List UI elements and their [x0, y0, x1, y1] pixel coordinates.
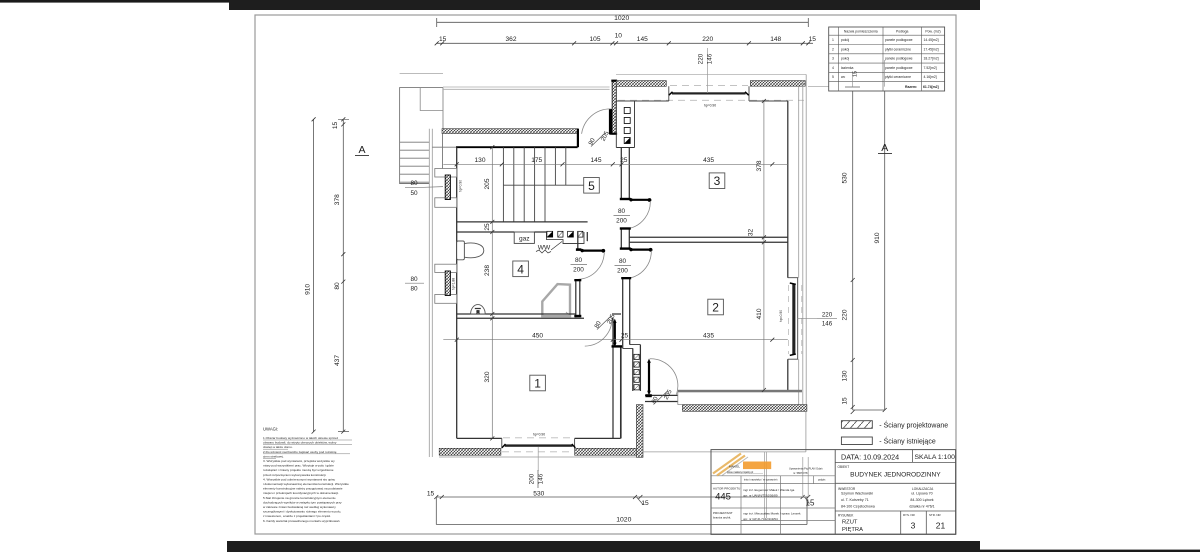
- svg-text:nr. 58672/78: nr. 58672/78: [793, 471, 808, 475]
- svg-text:220: 220: [702, 36, 713, 43]
- interior vertical dim line left: [491, 147, 493, 438]
- svg-text:3. Wszystkie pod wymiarami, pr: 3. Wszystkie pod wymiarami, przejścia ws…: [263, 459, 335, 463]
- door D3 (to room3) width arrow: [631, 199, 650, 201]
- svg-text:szczegółowymi i dyskutowaniu r: szczegółowymi i dyskutowaniu różnego ele…: [263, 510, 341, 514]
- right total dim line 910: [884, 87, 886, 410]
- corridor east wall cap below D4: [621, 277, 631, 279]
- svg-text:STR. NR: STR. NR: [929, 513, 941, 517]
- vestibule wall top cap: [611, 80, 617, 82]
- interior dim line lower: [443, 339, 788, 341]
- right half row lines: [835, 462, 955, 511]
- svg-text:320: 320: [484, 371, 491, 382]
- svg-text:RYSUNEK: RYSUNEK: [838, 514, 854, 518]
- terrace hatch strip: [682, 405, 807, 412]
- east wall mid line: [798, 86, 800, 411]
- svg-text:437: 437: [334, 355, 341, 366]
- bottom dim ticks: [434, 495, 810, 499]
- south window jambs: [502, 438, 575, 448]
- table row lines: [829, 35, 945, 81]
- title block main divider: [834, 450, 836, 535]
- svg-text:1020: 1020: [616, 517, 631, 524]
- interior vertical ticks: [490, 145, 494, 440]
- vent square 4: [578, 231, 583, 237]
- svg-text:32: 32: [748, 229, 755, 237]
- terrace outline: [643, 411, 806, 452]
- entry door hinge dot: [609, 131, 613, 135]
- svg-text:4. Wszystkie pod odmierzonymi: 4. Wszystkie pod odmierzonymi wymiarami …: [263, 477, 335, 481]
- toilet tank: [457, 241, 465, 260]
- svg-text:hp=0.90: hp=0.90: [459, 180, 463, 192]
- svg-text:- Ściany istniejące: - Ściany istniejące: [879, 437, 936, 446]
- shower: [542, 284, 570, 316]
- svg-text:ul. T. Kutrzeby 71: ul. T. Kutrzeby 71: [841, 498, 869, 502]
- svg-text:dostep a takze domu.: dostep a takze domu.: [263, 445, 293, 449]
- north window leader: [707, 48, 709, 93]
- left segment dim line: [342, 119, 344, 431]
- svg-text:200: 200: [573, 267, 584, 274]
- south wall room1 inner face: [457, 347, 621, 439]
- wall room5/room4 top edge: [457, 221, 588, 223]
- wall room4/room1 double: [457, 314, 584, 318]
- svg-text:branża archit.: branża archit.: [713, 516, 731, 520]
- svg-text:200: 200: [617, 268, 628, 275]
- top thin black strip: [0, 0, 229, 3]
- svg-text:łazienka: łazienka: [841, 66, 854, 70]
- svg-text:wc: wc: [841, 75, 845, 79]
- rysnr dividers: [901, 511, 927, 534]
- svg-text:RZUT: RZUT: [842, 520, 858, 526]
- right segment dim line: [852, 87, 854, 410]
- header mini labels: [744, 479, 826, 482]
- top wall room5 hatched band: [442, 129, 578, 134]
- corridor south wall double: [645, 395, 678, 401]
- notes underline marks: [263, 440, 352, 458]
- svg-text:450: 450: [532, 333, 543, 340]
- north window sash: [672, 92, 746, 94]
- svg-text:10: 10: [615, 33, 623, 40]
- room number 5: [584, 178, 600, 194]
- svg-text:miary pod wszystkiemi prac. Wi: miary pod wszystkiemi prac. Wizytuje w p…: [263, 464, 334, 468]
- svg-text:80: 80: [410, 276, 418, 283]
- interior dim ticks lower: [455, 338, 775, 342]
- wall room3/room2 double: [629, 237, 788, 242]
- svg-text:1: 1: [832, 38, 834, 42]
- gaz box: [514, 232, 534, 243]
- svg-text:panele podłogowe: panele podłogowe: [885, 57, 913, 61]
- interior vertical dim line right: [763, 101, 765, 390]
- top total dim line 1020: [437, 18, 809, 27]
- door D1 swing arc: [579, 252, 605, 279]
- stair treads lower flight: [503, 185, 545, 222]
- room number 1: [530, 375, 546, 391]
- svg-text:A: A: [881, 142, 888, 154]
- svg-text:2: 2: [832, 47, 834, 51]
- svg-text:146: 146: [822, 321, 833, 328]
- svg-text:w zakresie zmian budowlanej ra: w zakresie zmian budowlanej raz według w…: [263, 505, 336, 509]
- entry door swing arc: [582, 109, 611, 134]
- door D5 label 80/205 rotated: [650, 384, 674, 409]
- entry door label 90/205 rotated: [587, 125, 611, 150]
- svg-text:www.makiel-projekty.pl: www.makiel-projekty.pl: [727, 470, 754, 474]
- wall piece right of door D2: [612, 314, 621, 318]
- table header text: [844, 29, 941, 33]
- svg-text:upr. nr GP-III-7342/119/94: upr. nr GP-III-7342/119/94: [743, 517, 778, 521]
- door D5 jamb cap: [645, 394, 651, 397]
- east window sash: [792, 284, 795, 355]
- wall notch under vent squares: [547, 232, 585, 244]
- interior dim line upper: [443, 163, 788, 165]
- notes body text: [263, 436, 349, 523]
- hall west wall lower caps: [574, 279, 581, 281]
- east wall inner face room3: [787, 101, 789, 278]
- vent square 1 (filled): [547, 231, 553, 237]
- svg-text:Razem:: Razem:: [905, 85, 917, 89]
- svg-text:25: 25: [484, 223, 491, 231]
- logo orange bar: [743, 462, 771, 470]
- svg-text:hp=0.90: hp=0.90: [533, 433, 545, 437]
- stair mid landing line: [503, 184, 587, 186]
- vent square 2: [558, 231, 563, 237]
- svg-text:5.Stal zbrojenie na gruncie ko: 5.Stal zbrojenie na gruncie konstrukcyjn…: [263, 496, 336, 500]
- svg-text:80: 80: [410, 286, 418, 293]
- south window sash: [505, 444, 573, 446]
- logo diagonals: [713, 454, 745, 476]
- door D5 swing arc: [650, 359, 678, 395]
- svg-text:3: 3: [911, 521, 916, 531]
- vent diamonds: [634, 354, 639, 390]
- svg-text:obszaru budowli, do wizyty obe: obszaru budowli, do wizyty obecnych obie…: [263, 441, 337, 445]
- svg-text:ul. Lipowa 70: ul. Lipowa 70: [911, 492, 932, 496]
- svg-text:146: 146: [707, 53, 714, 64]
- svg-text:OBIEKT: OBIEKT: [838, 465, 850, 469]
- svg-text:elementy konstrukcyjne należy: elementy konstrukcyjne należy przygotowa…: [263, 487, 343, 491]
- svg-text:6. Każdy warsztat prowadzonego: 6. Każdy warsztat prowadzonego montażu w…: [263, 519, 340, 523]
- svg-text:i dokumentacji wykonawczej ele: i dokumentacji wykonawczej elementów kon…: [263, 482, 349, 486]
- hall east wall segment 1: [621, 148, 629, 199]
- west window 2 pilaster blocks: [435, 264, 457, 272]
- svg-text:pokój: pokój: [841, 38, 849, 42]
- bottom right thin black strip: [980, 550, 1200, 552]
- svg-text:530: 530: [533, 490, 544, 497]
- door D3 swing arc: [630, 201, 651, 228]
- top dim labels: [439, 33, 816, 43]
- svg-text:3: 3: [714, 174, 721, 188]
- svg-text:362: 362: [505, 36, 516, 43]
- svg-text:15: 15: [842, 397, 849, 405]
- west wall inner face: [456, 147, 458, 438]
- svg-text:Szymon Wachowski: Szymon Wachowski: [841, 492, 873, 496]
- svg-text:5: 5: [832, 75, 834, 79]
- svg-text:rozwiązań i zmiany projektu mu: rozwiązań i zmiany projektu muszą być uz…: [263, 468, 334, 472]
- room number 4: [513, 261, 529, 277]
- west wall pillar top edge: [432, 146, 456, 148]
- east wall outer double: [803, 74, 806, 411]
- svg-text:z inwestorem, a także z projek: z inwestorem, a także z projektantami f …: [263, 514, 331, 518]
- bottom window dim 200/146 rotated: [528, 473, 544, 484]
- room1 east wall: [613, 318, 621, 438]
- north wall hatch right of window: [750, 81, 805, 87]
- roof overhang line: [616, 73, 806, 75]
- hall west wall upper: [578, 232, 588, 249]
- corridor east wall lower: [633, 345, 641, 391]
- table extension line over row5: [853, 60, 885, 87]
- svg-text:5: 5: [588, 179, 595, 193]
- south wall hatch right: [575, 448, 639, 455]
- south window dashes: [502, 438, 574, 452]
- svg-text:80: 80: [334, 282, 341, 290]
- svg-text:2.Do wznieść nad bardzo zapisa: 2.Do wznieść nad bardzo zapisać osoby po…: [263, 450, 337, 454]
- toilet bowl: [464, 243, 483, 258]
- svg-text:A: A: [358, 144, 365, 156]
- svg-text:7.52[m2]: 7.52[m2]: [924, 66, 937, 70]
- shaft squares: [624, 108, 630, 114]
- south window leader: [537, 447, 539, 471]
- svg-text:1: 1: [534, 377, 541, 391]
- svg-text:80: 80: [619, 258, 627, 265]
- svg-text:AUTOR PROJEKTU: AUTOR PROJEKTU: [713, 487, 740, 491]
- canopy edge double line: [443, 87, 610, 89]
- tiny gray company text: [789, 467, 823, 475]
- svg-text:3: 3: [832, 57, 834, 61]
- top segment dim line: [437, 42, 813, 44]
- svg-text:200: 200: [616, 218, 627, 225]
- svg-text:15: 15: [332, 122, 339, 130]
- svg-text:200: 200: [528, 473, 535, 484]
- door D4 label 80/200: [617, 258, 628, 275]
- room number 2: [708, 299, 724, 315]
- svg-text:410: 410: [756, 308, 763, 319]
- svg-text:Pow. (m2): Pow. (m2): [925, 29, 940, 33]
- legend hatched box: [841, 421, 872, 429]
- svg-text:panele podłogowe: panele podłogowe: [885, 38, 913, 42]
- west window 2 sash (dark): [445, 271, 450, 296]
- svg-text:działka nr 476/1: działka nr 476/1: [909, 504, 934, 508]
- svg-text:mgr inż. Mieczysław Marek / sp: mgr inż. Mieczysław Marek / spraw. Lesze…: [743, 512, 801, 516]
- svg-text:130: 130: [474, 157, 485, 164]
- svg-text:80: 80: [618, 208, 626, 215]
- south wall outer face: [439, 456, 643, 458]
- svg-text:mgr inż. Eugeniusz Malek / Wan: mgr inż. Eugeniusz Malek / Wanda Iga: [743, 488, 795, 492]
- svg-text:ciem strefowej.: ciem strefowej.: [263, 454, 284, 458]
- svg-text:4: 4: [832, 66, 834, 70]
- svg-text:- Ściany projektowane: - Ściany projektowane: [879, 420, 948, 429]
- door D1 width arrow: [581, 250, 603, 252]
- bottom total dim line 1020: [436, 497, 807, 525]
- west wall upper outer face: [442, 88, 444, 129]
- svg-text:61.74[m2]: 61.74[m2]: [923, 85, 939, 89]
- svg-text:378: 378: [756, 160, 763, 171]
- south wall hatch left: [439, 448, 501, 455]
- svg-text:podpis: podpis: [818, 479, 826, 482]
- svg-text:18.27[m2]: 18.27[m2]: [924, 57, 939, 61]
- svg-text:płytki ceramiczne: płytki ceramiczne: [885, 75, 911, 79]
- washbasin: [471, 305, 486, 314]
- svg-text:220: 220: [842, 309, 849, 320]
- svg-text:miejscu i przekrojach koordyna: miejscu i przekrojach koordynacyjnych w …: [263, 491, 339, 495]
- svg-text:146: 146: [538, 473, 545, 484]
- svg-text:przed rozpoczęciem wykonywania: przed rozpoczęciem wykonywania konstrukc…: [263, 473, 326, 477]
- entry door leaf: [609, 109, 612, 132]
- svg-text:4: 4: [517, 262, 524, 276]
- svg-text:Nazwa pomieszczenia: Nazwa pomieszczenia: [844, 29, 878, 33]
- svg-text:Uprawnienia Pty PLAN Gdań: Uprawnienia Pty PLAN Gdań: [789, 467, 823, 471]
- svg-text:220: 220: [822, 312, 833, 319]
- svg-text:LOKALIZACJA: LOKALIZACJA: [912, 487, 934, 491]
- east window recess: [788, 278, 798, 360]
- svg-text:435: 435: [703, 157, 714, 164]
- room2 south wall lower edge: [678, 392, 683, 404]
- bottom black bar: [227, 541, 980, 552]
- interior vertical ticks right: [762, 99, 766, 392]
- legend empty box: [841, 437, 872, 445]
- door D1 jamb cap: [576, 248, 582, 251]
- svg-text:panele podłogowe: panele podłogowe: [885, 66, 913, 70]
- svg-text:105: 105: [589, 36, 600, 43]
- left half grid: [711, 476, 835, 521]
- svg-text:15: 15: [427, 490, 435, 497]
- svg-text:84-100 Częstochowa: 84-100 Częstochowa: [841, 504, 875, 508]
- svg-text:hp=0.90: hp=0.90: [779, 310, 783, 322]
- svg-text:14.45[m2]: 14.45[m2]: [924, 38, 939, 42]
- svg-text:84-300 Lębork: 84-300 Lębork: [910, 498, 933, 502]
- north wall hatch left of window: [616, 81, 666, 87]
- svg-text:238: 238: [484, 265, 491, 276]
- hall west wall lower (room4 east): [576, 279, 580, 317]
- corridor step: [623, 345, 641, 349]
- svg-text:gaz: gaz: [519, 236, 530, 243]
- door D3 label 80/200: [616, 208, 627, 225]
- interior dim ticks upper: [455, 162, 775, 166]
- investor lines: [841, 492, 875, 509]
- hall east wall cap: [620, 198, 631, 200]
- porch landing inner lines: [420, 88, 443, 111]
- svg-text:INWESTOR: INWESTOR: [838, 487, 856, 491]
- svg-text:21: 21: [936, 521, 946, 531]
- top dim ticks: [435, 41, 811, 45]
- svg-text:25: 25: [620, 157, 628, 164]
- north inner face right: [749, 86, 788, 101]
- svg-text:1.Obszar budowy wyznaczono w t: 1.Obszar budowy wyznaczono w takich okre…: [263, 436, 338, 440]
- svg-text:435: 435: [703, 333, 714, 340]
- svg-text:50: 50: [410, 190, 418, 197]
- svg-text:imię i nazwisko / nr uprawnień: imię i nazwisko / nr uprawnień: [744, 479, 778, 482]
- porch roof line: [400, 73, 443, 75]
- svg-text:205: 205: [484, 178, 491, 189]
- location lines: [909, 492, 934, 509]
- door D2 swing arc: [585, 319, 612, 346]
- top wall room5 right cap: [577, 129, 579, 148]
- svg-text:4.16[m2]: 4.16[m2]: [924, 75, 937, 79]
- svg-text:2: 2: [712, 301, 719, 315]
- svg-text:DATA: 10.09.2024: DATA: 10.09.2024: [841, 452, 899, 461]
- sheet frame: [255, 15, 956, 534]
- extension lines to title block: [765, 452, 767, 518]
- svg-text:SKALA 1:100: SKALA 1:100: [915, 454, 956, 461]
- svg-text:220: 220: [697, 53, 704, 64]
- vestibule west wall hatched: [612, 80, 616, 133]
- bottom segment dim line: [436, 496, 808, 498]
- svg-text:upr. nr UAN/N/7210/56/89: upr. nr UAN/N/7210/56/89: [743, 494, 778, 498]
- west wall outer face (double line): [429, 129, 432, 457]
- svg-text:1020: 1020: [614, 15, 629, 22]
- west window 1 dim 80/50: [410, 180, 418, 197]
- west window 2 dim 80/80: [410, 276, 418, 293]
- title block frame: [711, 450, 956, 535]
- east window dashes: [789, 285, 802, 354]
- svg-text:hp=1.88: hp=1.88: [452, 278, 456, 290]
- svg-text:dochodzących wyników w związku: dochodzących wyników w związku tym powią…: [263, 500, 342, 504]
- right extension line top: [808, 86, 886, 88]
- svg-text:PIĘTRA: PIĘTRA: [842, 527, 863, 533]
- svg-text:pokój: pokój: [841, 47, 849, 51]
- hall east wall caps segment 2: [620, 227, 631, 229]
- room table frame: [829, 27, 945, 91]
- door D5 width arrow: [648, 361, 650, 394]
- svg-text:Podłoga: Podłoga: [896, 29, 909, 33]
- svg-text:15: 15: [439, 36, 447, 43]
- svg-text:80: 80: [410, 180, 418, 187]
- door D4 swing arc: [631, 251, 652, 278]
- svg-text:hp=0.90: hp=0.90: [704, 104, 716, 108]
- svg-text:17.45[m2]: 17.45[m2]: [924, 47, 939, 51]
- svg-text:15: 15: [809, 36, 817, 43]
- porch stair treads: [400, 142, 430, 182]
- west window 1 sash (dark): [445, 175, 450, 200]
- svg-text:148: 148: [770, 36, 781, 43]
- svg-text:378: 378: [334, 194, 341, 205]
- svg-text:pokój: pokój: [841, 57, 849, 61]
- table rows text: [832, 38, 939, 89]
- wall room5/room4 bottom edge: [457, 231, 547, 233]
- svg-text:BUDYNEK JEDNORODZINNY: BUDYNEK JEDNORODZINNY: [850, 471, 941, 478]
- top wall room5 body: [456, 146, 578, 148]
- data/skala divider: [911, 450, 913, 463]
- svg-text:PROJEKTANT: PROJEKTANT: [713, 511, 733, 515]
- svg-text:RYS. NR: RYS. NR: [903, 513, 915, 517]
- svg-text:910: 910: [305, 284, 312, 295]
- room number 3: [709, 173, 725, 189]
- top window dim 220/146 rotated: [697, 53, 713, 64]
- top black bar: [229, 0, 980, 10]
- svg-text:145: 145: [590, 157, 601, 164]
- stair treads upper flight: [503, 147, 565, 185]
- table column lines: [839, 27, 922, 91]
- shower inner corner mark: [566, 312, 569, 315]
- room1 east wall cap at door: [612, 345, 623, 347]
- svg-text:25: 25: [621, 333, 629, 340]
- svg-text:910: 910: [874, 232, 881, 243]
- svg-text:530: 530: [842, 172, 849, 183]
- room2 south wall band: [678, 390, 802, 393]
- door D1 label 80/200: [573, 257, 584, 274]
- svg-text:UWAGI:: UWAGI:: [263, 427, 278, 432]
- corridor east wall below D4: [623, 278, 630, 349]
- south-east vertical hatch band: [636, 405, 643, 458]
- vent square 3 (filled): [568, 231, 574, 237]
- north inner face left: [616, 86, 669, 101]
- north window dashes: [670, 85, 748, 87]
- svg-text:130: 130: [842, 370, 849, 381]
- west window 1 pilaster blocks: [435, 169, 457, 178]
- svg-text:płytki ceramiczne: płytki ceramiczne: [885, 47, 911, 51]
- porch outline (exterior stair, west): [400, 88, 443, 184]
- west wall band left boundary: [442, 134, 444, 169]
- svg-text:15: 15: [853, 71, 859, 77]
- hall east wall segment 2: [621, 228, 629, 248]
- north inner face dashed line: [618, 99, 804, 101]
- east wall inner face room2 lower: [787, 359, 789, 390]
- right dims connector: [853, 409, 885, 411]
